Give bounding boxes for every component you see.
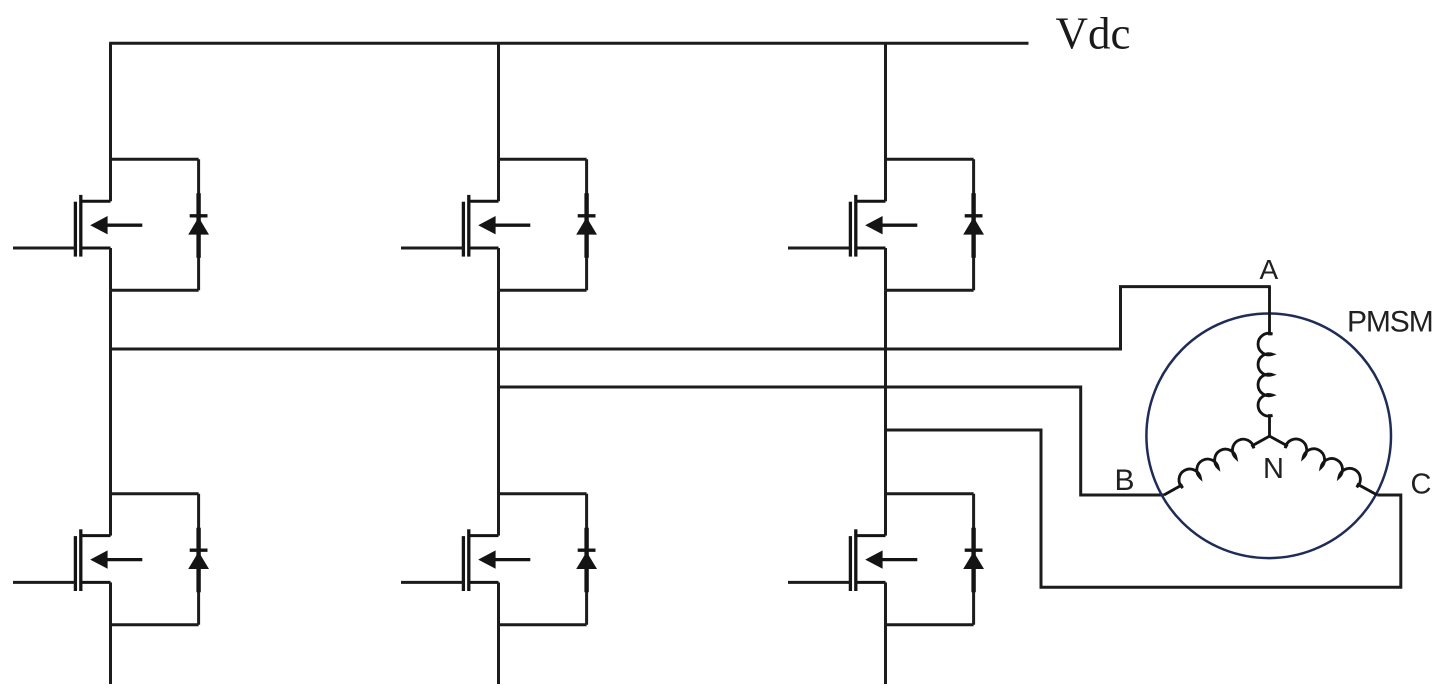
wire: phase A from leg 1 to motor terminal A — [111, 287, 1271, 349]
wire: leg from Vdc rail to drain of Q1 — [109, 43, 112, 201]
wire: drain branch to D1 — [111, 158, 199, 161]
wire: source stub of Q3 — [497, 248, 500, 290]
transistor Q5 (N-MOSFET) — [850, 195, 917, 257]
diode D2 (freewheeling) — [188, 494, 209, 625]
wire: drain branch to D4 — [499, 492, 587, 495]
wire: phase B from leg 2 to motor terminal B — [499, 387, 1164, 495]
wire: bottom leg below Q4 — [497, 624, 500, 686]
wire: gate lead of Q2 — [13, 581, 75, 584]
wire: source stub of Q4 — [497, 582, 500, 624]
wire: source stub of Q5 — [884, 248, 887, 290]
wire: source branch from D4 — [499, 623, 587, 626]
transistor Q1 (N-MOSFET) — [75, 195, 142, 257]
wire: drain branch to D6 — [886, 492, 974, 495]
transistor Q2 (N-MOSFET) — [75, 529, 142, 591]
wire: source stub of Q6 — [884, 582, 887, 624]
wire: source branch from D5 — [886, 289, 974, 292]
svg-text:Vdc: Vdc — [1056, 9, 1131, 59]
wire: source branch from D3 — [499, 289, 587, 292]
svg-text:C: C — [1411, 469, 1432, 501]
diode D5 (freewheeling) — [963, 159, 984, 290]
diode D1 (freewheeling) — [188, 159, 209, 290]
motor PMSM stator circle — [1146, 314, 1391, 559]
wire: leg from Vdc rail to drain of Q3 — [497, 43, 500, 201]
diode D3 (freewheeling) — [576, 159, 597, 290]
winding A (phase A stator coil) — [1258, 287, 1272, 437]
transistor Q6 (N-MOSFET) — [850, 529, 917, 591]
wire: phase C from leg 3 to motor terminal C — [886, 430, 1401, 587]
winding C (phase C stator coil) — [1268, 426, 1383, 497]
wire: leg from phase node to drain of Q6 — [884, 290, 887, 535]
transistor Q3 (N-MOSFET) — [463, 195, 530, 257]
wire: source branch from D1 — [111, 289, 199, 292]
wire: gate lead of Q3 — [401, 247, 463, 250]
wire: leg from phase node to drain of Q4 — [497, 290, 500, 535]
wire: gate lead of Q4 — [401, 581, 463, 584]
wire: gate lead of Q5 — [788, 247, 850, 250]
svg-text:PMSM: PMSM — [1347, 306, 1433, 339]
wire: drain branch to D3 — [499, 158, 587, 161]
wire: gate lead of Q1 — [13, 247, 75, 250]
wire: gate lead of Q6 — [788, 581, 850, 584]
wire: source stub of Q1 — [109, 248, 112, 290]
winding B (phase B stator coil) — [1158, 426, 1271, 497]
transistor Q4 (N-MOSFET) — [463, 529, 530, 591]
svg-text:N: N — [1263, 453, 1284, 485]
wire: source stub of Q2 — [109, 582, 112, 624]
wire: drain branch to D2 — [111, 492, 199, 495]
wire: Vdc top rail — [109, 42, 1028, 45]
wire: leg from phase node to drain of Q2 — [109, 290, 112, 535]
wire: drain branch to D5 — [886, 158, 974, 161]
wire: source branch from D6 — [886, 623, 974, 626]
wire: bottom leg below Q2 — [109, 624, 112, 686]
diode D4 (freewheeling) — [576, 494, 597, 625]
wire: leg from Vdc rail to drain of Q5 — [884, 43, 887, 201]
wire: source branch from D2 — [111, 623, 199, 626]
svg-text:B: B — [1115, 464, 1135, 497]
wire: bottom leg below Q6 — [884, 624, 887, 686]
svg-text:A: A — [1260, 254, 1279, 285]
diode D6 (freewheeling) — [963, 494, 984, 625]
